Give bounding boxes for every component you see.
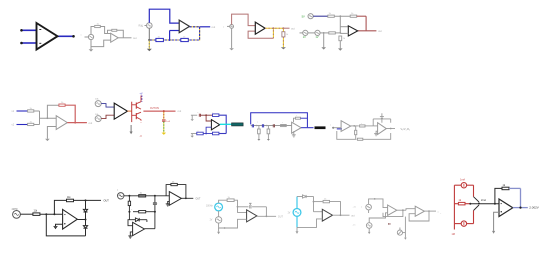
svg-text:+15: +15 (353, 207, 357, 209)
svg-text:OUT: OUT (196, 199, 201, 201)
svg-text:out: out (378, 29, 382, 33)
svg-text:1mA: 1mA (460, 178, 465, 181)
svg-text:1V: 1V (210, 220, 213, 222)
svg-text:2mA: 2mA (481, 199, 486, 202)
svg-text:c: c (157, 203, 158, 205)
svg-text:5V: 5V (302, 14, 305, 18)
svg-text:OUT: OUT (278, 216, 284, 219)
svg-text:■■: ■■ (388, 223, 391, 226)
svg-text:+V: +V (140, 93, 143, 96)
svg-text:1V: 1V (288, 213, 291, 215)
svg-text:-15: -15 (353, 225, 357, 227)
svg-text:OUT: OUT (104, 200, 110, 203)
svg-text:v: v (330, 125, 331, 127)
svg-text:out: out (351, 214, 355, 217)
svg-text:+: + (440, 213, 442, 215)
svg-text:1M: 1M (452, 233, 455, 236)
svg-text:out: out (178, 109, 182, 113)
svg-text:11k: 11k (34, 211, 38, 213)
svg-text:c: c (257, 122, 258, 124)
svg-text:OUT=0V: OUT=0V (150, 108, 159, 110)
svg-text:1k: 1k (459, 199, 462, 202)
svg-text:out: out (133, 36, 137, 40)
svg-text:1k: 1k (503, 184, 506, 187)
svg-text:1V: 1V (303, 36, 306, 39)
svg-text:11k: 11k (67, 197, 71, 199)
svg-text:r: r (132, 209, 133, 211)
svg-text:1k: 1k (351, 13, 354, 15)
svg-text:1V: 1V (316, 36, 319, 39)
svg-text:out: out (89, 121, 93, 125)
svg-text:r: r (282, 121, 283, 124)
svg-text:v: v (81, 35, 83, 37)
svg-text:r: r (297, 114, 298, 117)
svg-text:out: out (212, 25, 216, 29)
svg-text:V₀/V₁ R₂: V₀/V₁ R₂ (401, 128, 410, 131)
svg-text:v: v (223, 27, 225, 29)
svg-text:100Hz: 100Hz (206, 206, 213, 208)
svg-text:v2: v2 (12, 124, 15, 127)
svg-text:out: out (291, 26, 295, 30)
svg-text:2.002V: 2.002V (529, 206, 539, 210)
svg-text:v: v (142, 26, 144, 28)
svg-text:1k: 1k (286, 34, 289, 36)
svg-text:v1: v1 (12, 110, 15, 113)
svg-text:1uF: 1uF (166, 121, 170, 123)
svg-text:1k: 1k (329, 13, 332, 15)
svg-text:1k: 1k (343, 38, 346, 40)
svg-text:-V: -V (140, 135, 143, 138)
svg-text:v: v (117, 190, 119, 192)
svg-text:c: c (198, 112, 199, 114)
svg-text:v: v (361, 207, 362, 209)
